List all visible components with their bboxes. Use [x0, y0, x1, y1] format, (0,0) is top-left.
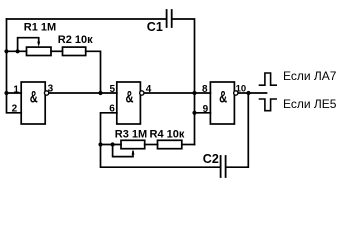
pin 1: [13, 85, 19, 96]
pin 2: [12, 103, 18, 114]
wire pin4 to pin8: [143, 92, 210, 94]
svg-text:9: 9: [203, 104, 209, 115]
pin 8: [202, 84, 208, 95]
svg-text:10: 10: [236, 83, 247, 94]
wire R3 to R4: [145, 144, 158, 146]
wire R3 lead: [101, 144, 122, 146]
wiper R3: [113, 145, 135, 157]
gate U3 symbol: [219, 88, 227, 107]
resistor R1: [27, 47, 52, 55]
node R3 wiper junction: [111, 142, 115, 146]
bubble pin3: [44, 91, 48, 95]
wire output pin10: [238, 92, 266, 94]
wire pin3 to pin5: [49, 92, 117, 94]
svg-text:&: &: [219, 88, 227, 107]
svg-text:&: &: [125, 88, 133, 107]
inversion bubbles: [44, 91, 238, 95]
wire R4 to vertical: [182, 144, 195, 146]
label R1: [24, 22, 56, 34]
wire C2 to output: [227, 93, 249, 167]
svg-text:R2 10к: R2 10к: [58, 34, 93, 46]
node R1 wiper junction: [16, 49, 20, 53]
label C1: [147, 20, 163, 34]
svg-text:6: 6: [109, 104, 115, 115]
capacitor C2: [221, 156, 226, 177]
svg-text:5: 5: [109, 84, 115, 95]
gate U3 box: [210, 82, 234, 124]
gate U1 symbol: [30, 88, 38, 107]
svg-text:&: &: [30, 88, 38, 107]
node C1-pin8 junction: [192, 91, 196, 95]
wire node A to R1: [7, 50, 27, 52]
pin 5: [109, 84, 115, 95]
gate U2 symbol: [125, 88, 133, 107]
resistor R3: [121, 140, 145, 148]
wire R2 down to node B: [86, 51, 101, 93]
pin 4: [146, 84, 152, 95]
waveform negative pulse: [260, 99, 277, 111]
wire top to C1: [7, 18, 166, 20]
wire bottom rail to C2: [101, 145, 220, 168]
label R4: [150, 128, 185, 140]
pin 10: [236, 83, 247, 94]
svg-text:3: 3: [48, 84, 54, 95]
capacitor C1: [167, 10, 172, 27]
svg-text:R1 1M: R1 1M: [24, 22, 56, 34]
svg-text:2: 2: [12, 103, 18, 114]
resistor R2: [63, 47, 86, 55]
pin 3: [48, 84, 54, 95]
resistor R4: [158, 140, 182, 148]
svg-text:C1: C1: [147, 20, 163, 34]
label R3: [115, 128, 147, 140]
waveform positive pulse: [260, 73, 277, 85]
svg-text:Если ЛА7: Если ЛА7: [283, 69, 337, 83]
svg-text:C2: C2: [203, 152, 219, 166]
svg-text:8: 8: [202, 84, 208, 95]
node B junction: [98, 91, 102, 95]
node A-R1 junction: [4, 49, 8, 53]
label C2: [203, 152, 219, 166]
svg-text:R3 1M: R3 1M: [115, 128, 147, 140]
node A pin1 junction: [4, 91, 8, 95]
node pin9 junction: [192, 111, 196, 115]
wire R1 to R2: [51, 50, 63, 52]
wire pin6 down to R3: [101, 113, 117, 145]
node output junction: [246, 91, 250, 95]
node R3 lead junction: [98, 142, 102, 146]
svg-text:1: 1: [13, 85, 19, 96]
svg-text:R4 10к: R4 10к: [150, 128, 185, 140]
pin 9: [203, 104, 209, 115]
bubble pin10: [234, 91, 238, 95]
svg-text:4: 4: [146, 84, 152, 95]
pin 6: [109, 104, 115, 115]
gate U1 box: [21, 82, 45, 124]
label condition LA7: [283, 69, 337, 83]
wire C1 to node B2: [173, 19, 195, 145]
gate U2 box: [117, 82, 141, 124]
node junction dots: [4, 49, 250, 146]
bubble pin4: [140, 91, 144, 95]
wire pin1 input: [7, 92, 22, 94]
svg-text:Если ЛЕ5: Если ЛЕ5: [283, 97, 337, 111]
label R2: [58, 34, 93, 46]
label condition LE5: [283, 97, 337, 111]
wire pin9: [195, 112, 211, 114]
wiper R1: [18, 38, 41, 52]
wire left rail node A: [7, 19, 22, 113]
